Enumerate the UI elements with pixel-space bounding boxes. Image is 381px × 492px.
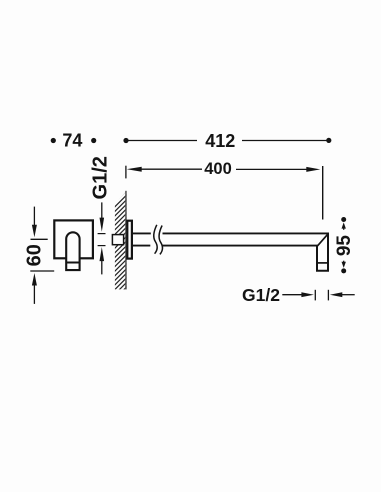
label G1/2 wall inlet (rotated) xyxy=(89,156,111,199)
arm end outlet outline xyxy=(317,233,328,270)
dimension 400 left tick xyxy=(125,166,127,179)
spout nut line front view xyxy=(66,262,79,264)
G1/2 inlet dimension upper arrow xyxy=(100,202,105,231)
dimension 74 label xyxy=(62,131,82,151)
dimension 60 lower tick xyxy=(30,270,54,272)
dimension 400 left arrow xyxy=(127,167,202,172)
G1/2 outlet left arrow xyxy=(282,292,314,297)
wall face line xyxy=(125,191,127,290)
G1/2 outlet right arrow xyxy=(330,292,355,297)
G1/2 inlet dimension lower tick xyxy=(98,245,106,247)
dimension 400 label xyxy=(204,160,232,178)
dimension 95 label (rotated) xyxy=(334,235,355,257)
svg-text:412: 412 xyxy=(205,131,235,151)
svg-text:G1/2: G1/2 xyxy=(242,285,280,305)
shower arm upper line (left of break) xyxy=(133,232,151,234)
dimension 95 bottom dot xyxy=(341,268,346,273)
dimension 60 upper arrow xyxy=(32,207,37,238)
svg-text:60: 60 xyxy=(24,244,46,266)
dimension 74 right dot xyxy=(91,138,96,143)
break symbol wave 2 xyxy=(159,226,162,255)
arm front view (rounded spout) xyxy=(66,232,79,270)
shower arm lower line (right of break) xyxy=(162,245,318,247)
G1/2 inlet dimension upper tick xyxy=(98,233,106,235)
break symbol wave 1 xyxy=(154,225,157,254)
G1/2 outlet left tick xyxy=(314,290,316,301)
dimension 60 label (rotated) xyxy=(24,244,46,266)
concealed connection box xyxy=(112,235,123,245)
G1/2 inlet dimension lower arrow xyxy=(100,247,105,274)
dimension 60 lower arrow xyxy=(32,273,37,304)
svg-text:400: 400 xyxy=(204,160,232,178)
dimension 412 label xyxy=(205,131,235,151)
wall flange side view xyxy=(127,221,132,259)
dimension 400 right extension line xyxy=(322,166,324,220)
dimension 95 lower arrow xyxy=(342,261,346,268)
shower arm upper line (right of break) xyxy=(163,232,330,234)
arm end miter diagonal xyxy=(317,234,328,247)
dimension 60 upper tick xyxy=(31,238,48,240)
G1/2 outlet right tick xyxy=(327,290,329,301)
arm end nut line xyxy=(317,262,328,264)
dimension 95 top dot xyxy=(341,217,346,222)
label G1/2 outlet xyxy=(242,285,280,305)
shower arm lower line (left of break) xyxy=(133,245,150,247)
wall hatching xyxy=(103,177,140,329)
dimension 412 line xyxy=(123,138,331,143)
dimension 74 left dot xyxy=(51,138,56,143)
dimension 400 right arrow xyxy=(236,167,320,172)
wall flange front view square xyxy=(54,220,93,258)
dimension 95 upper arrow xyxy=(342,222,346,229)
svg-text:G1/2: G1/2 xyxy=(89,156,111,199)
svg-text:74: 74 xyxy=(62,131,82,151)
svg-text:95: 95 xyxy=(334,235,355,257)
